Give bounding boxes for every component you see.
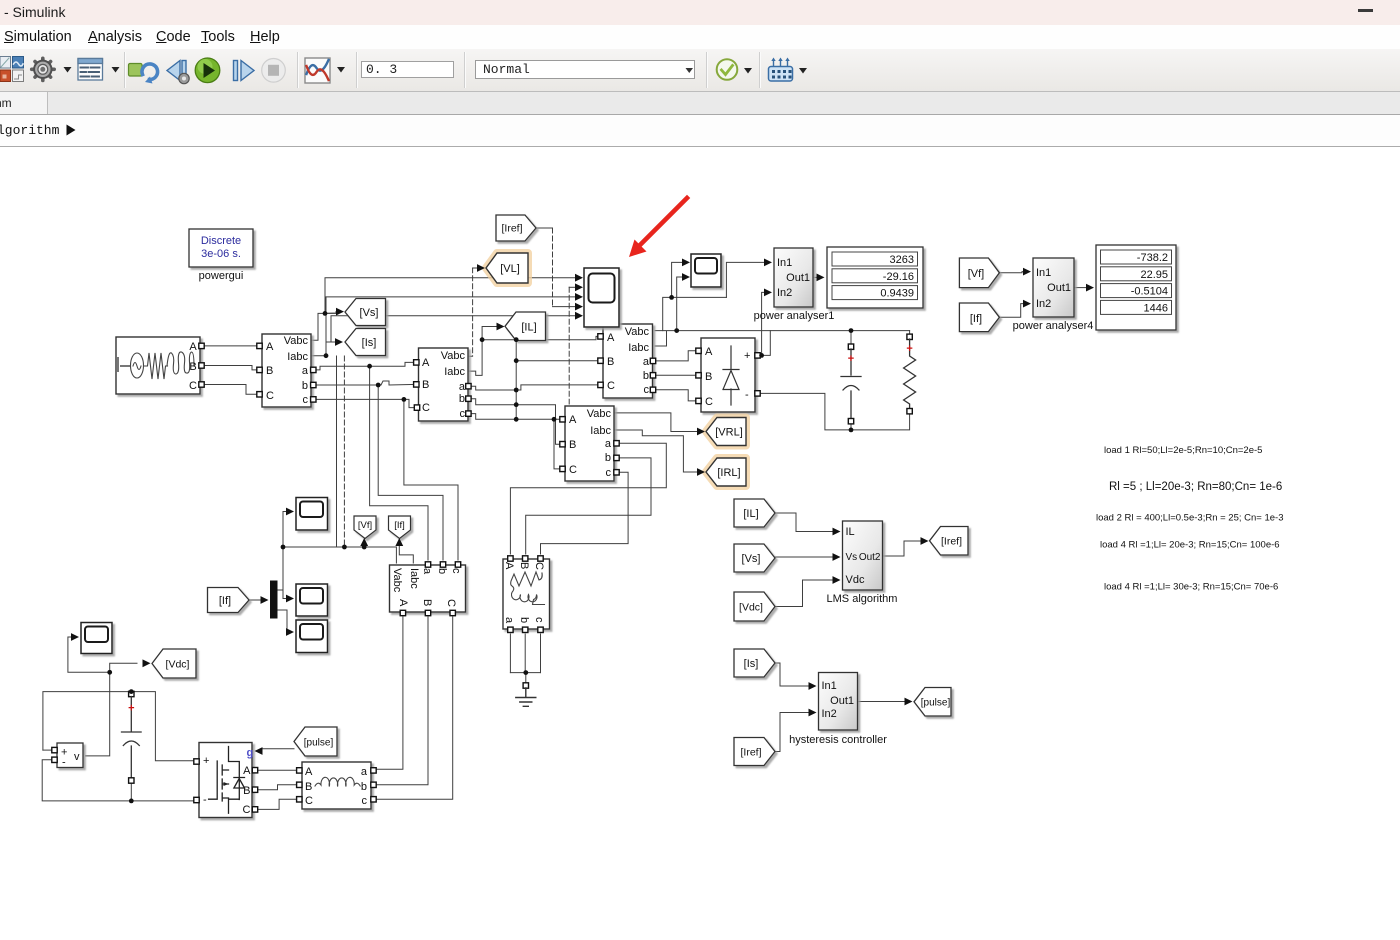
- svg-text:[VRL]: [VRL]: [715, 427, 743, 439]
- wire If feed: [399, 542, 413, 563]
- wire dashed scope in2 vertical: [568, 287, 570, 404]
- wire Vf to power analyser4 In1: [1000, 272, 1025, 273]
- wire meas1 Iabc to goto Is: [311, 342, 336, 356]
- svg-text:C: C: [705, 396, 713, 408]
- svg-text:LMS algorithm: LMS algorithm: [827, 593, 898, 605]
- three-phase V-I measurement block 2: [414, 348, 472, 421]
- wire cap bottom: [850, 424, 852, 430]
- wire branch meas4 C: [554, 419, 562, 469]
- svg-text:load 4 Rl =1;Ll= 20e-3; Rn=15;: load 4 Rl =1;Ll= 20e-3; Rn=15;Cn= 100e-6: [1100, 540, 1280, 551]
- toolbar run button: [195, 58, 220, 83]
- svg-text:[Iref]: [Iref]: [740, 747, 761, 759]
- wire cap top: [850, 331, 852, 344]
- toolbar model-settings icon: [78, 59, 120, 81]
- svg-text:load 1 Rl=50;Ll=2e-5;Rn=10;Cn=: load 1 Rl=50;Ll=2e-5;Rn=10;Cn=2e-5: [1104, 445, 1262, 456]
- svg-text:powergui: powergui: [199, 270, 244, 282]
- scope3: [296, 584, 328, 616]
- svg-text:A: A: [705, 346, 713, 358]
- goto tag [Vf] (small, point down): [354, 516, 376, 539]
- svg-text:a: a: [605, 438, 612, 450]
- svg-text:c: c: [644, 384, 650, 396]
- wire rail to power analyser1 In2: [762, 292, 765, 355]
- toolbar update-diagram icon: [129, 64, 158, 84]
- toolbar combo arrow: [686, 68, 694, 73]
- svg-text:+: +: [744, 350, 750, 362]
- svg-text:a: a: [503, 617, 515, 624]
- svg-text:[Iref]: [Iref]: [941, 536, 962, 548]
- svg-text:In1: In1: [777, 257, 792, 269]
- from tag [Iref] (top): [496, 215, 536, 241]
- svg-text:hysteresis controller: hysteresis controller: [789, 734, 887, 746]
- node junction Vs tap: [323, 311, 328, 316]
- svg-text:c: c: [533, 617, 545, 623]
- wire meas-f A down to RL3 a: [376, 617, 403, 769]
- svg-text:+: +: [906, 343, 912, 355]
- svg-text:C: C: [189, 380, 197, 392]
- capacitor branch (DC link): [841, 344, 861, 424]
- node junction ground node: [523, 670, 528, 675]
- svg-text:A: A: [503, 562, 515, 570]
- toolbar check icon: [717, 59, 752, 80]
- wire v plus stub: [43, 749, 52, 751]
- svg-text:-: -: [62, 757, 66, 769]
- wire scope1 in1 tap: [663, 297, 727, 330]
- node junction bus node 5: [514, 417, 519, 422]
- node junction phase-b tap: [376, 383, 381, 388]
- goto tag [Vs]: [345, 299, 386, 326]
- svg-text:c: c: [606, 467, 612, 479]
- goto tag [pulse] (bottom right): [914, 688, 951, 717]
- svg-text:[If]: [If]: [970, 313, 982, 325]
- svg-text:Iabc: Iabc: [444, 366, 465, 378]
- wire meas-f C down to RL3 c: [376, 617, 453, 799]
- goto tag [Vf] (from, right): [959, 258, 999, 288]
- svg-text:Vabc: Vabc: [284, 335, 309, 347]
- universal bridge (diode rectifier) block: [696, 338, 760, 412]
- wire IL rail to meas3 A: [482, 336, 600, 339]
- annotation load parameter texts: [1096, 445, 1284, 593]
- node junction dc cap top: [129, 689, 134, 694]
- svg-text:a: a: [361, 766, 368, 778]
- node junction Is tap: [324, 353, 329, 358]
- DC capacitor branch: [122, 691, 142, 783]
- scope1 (top, 2-input): [691, 254, 721, 287]
- svg-text:C: C: [569, 464, 577, 476]
- svg-text:a: a: [302, 365, 309, 377]
- svg-text:Iabc: Iabc: [628, 342, 649, 354]
- svg-text:[pulse]: [pulse]: [921, 698, 951, 709]
- svg-text:[Vdc]: [Vdc]: [166, 659, 190, 671]
- wire meas2 b to meas4 B: [468, 399, 562, 445]
- svg-text:3263: 3263: [890, 254, 914, 266]
- wire to scope5: [68, 637, 110, 672]
- wire ground bus: [510, 672, 540, 674]
- svg-text:Iabc: Iabc: [287, 351, 308, 363]
- wire scope in2 stub: [569, 286, 576, 288]
- breadcrumb arrow: [67, 125, 76, 136]
- wire igbt C to RL3 C: [258, 799, 298, 809]
- svg-text:IL: IL: [846, 526, 855, 538]
- from tag [pulse] (mirrored, point left): [294, 727, 337, 756]
- wire to scope1 in2: [677, 277, 684, 331]
- svg-text:Out1: Out1: [786, 272, 810, 284]
- scope5 (bottom left): [81, 623, 112, 654]
- three-phase series RL load block (rotated): [503, 556, 550, 633]
- svg-text:c: c: [460, 408, 466, 420]
- svg-text:Vabc: Vabc: [391, 568, 403, 593]
- svg-text:3e-06 s.: 3e-06 s.: [201, 248, 241, 260]
- node junction Vf arrow: [362, 545, 367, 550]
- wire into goto Vs stub: [325, 312, 338, 314]
- node junction Vf rail left: [281, 545, 286, 550]
- wire source C to meas1 C: [204, 385, 259, 395]
- svg-text:[VL]: [VL]: [500, 263, 520, 275]
- svg-text:b: b: [302, 380, 308, 392]
- svg-text:In2: In2: [822, 708, 837, 720]
- svg-text:C: C: [305, 795, 313, 807]
- node junction cap top: [849, 328, 854, 333]
- node junction phase-a tap: [367, 364, 372, 369]
- svg-text:+: +: [848, 353, 854, 365]
- wire ground stem: [525, 673, 527, 683]
- wire demux out1 to scope3: [278, 590, 290, 599]
- wire RL-load b to ground bus: [524, 634, 526, 673]
- svg-text:[If]: [If]: [394, 520, 405, 531]
- ground: [516, 683, 536, 707]
- svg-text:22.95: 22.95: [1140, 269, 1168, 281]
- svg-text:B: B: [518, 562, 530, 569]
- toolbar step-back icon: [167, 61, 189, 84]
- wire arrowheads: [71, 259, 1094, 755]
- svg-text:-: -: [745, 389, 749, 401]
- wire RL-load a to ground bus: [509, 634, 511, 673]
- three-phase V-I measurement block 3: [598, 324, 656, 398]
- svg-text:a: a: [459, 381, 466, 393]
- svg-text:[Is]: [Is]: [744, 658, 759, 670]
- svg-text:Out1: Out1: [1047, 282, 1071, 294]
- svg-text:Iabc: Iabc: [590, 425, 611, 437]
- wire meas3 c to bridge C: [655, 390, 696, 401]
- svg-text:C: C: [445, 599, 457, 607]
- goto tag [Vdc]: [152, 649, 196, 678]
- svg-text:In2: In2: [777, 287, 792, 299]
- svg-text:[Vf]: [Vf]: [968, 268, 985, 280]
- svg-text:b: b: [361, 781, 367, 793]
- svg-text:B: B: [305, 781, 312, 793]
- toolbar gear icon: [32, 58, 72, 80]
- svg-text:A: A: [422, 357, 430, 369]
- svg-text:[pulse]: [pulse]: [304, 738, 334, 749]
- wire meas3 b to bridge B: [655, 374, 696, 376]
- wire meas3 Iabc: [655, 331, 667, 346]
- wire tap b down to meas-f b: [378, 385, 443, 560]
- svg-text:-: -: [203, 794, 207, 806]
- wire to power analyser1 In1: [726, 262, 765, 297]
- goto tag [IRL] (highlighted): [706, 458, 746, 486]
- svg-text:a: a: [643, 356, 650, 368]
- goto tag [IL]: [505, 312, 546, 341]
- powergui block: [189, 229, 253, 282]
- wire dashed Iref vertical: [552, 228, 554, 307]
- wire into goto VL stub: [473, 267, 479, 269]
- wire bus x516: [515, 340, 517, 420]
- power analyser4 block: [1013, 258, 1094, 332]
- node junction bus node 4: [514, 402, 519, 407]
- svg-text:-29.16: -29.16: [883, 271, 914, 283]
- wire scope in4 stub: [553, 306, 577, 308]
- svg-text:B: B: [422, 379, 429, 391]
- svg-text:b: b: [459, 393, 465, 405]
- goto tag [If] (small, point down): [389, 516, 411, 539]
- wire meas2 c to meas4 A: [468, 414, 562, 420]
- svg-text:C: C: [266, 390, 274, 402]
- wire Iabc branch to scope in3: [326, 297, 576, 356]
- svg-text:B: B: [189, 361, 196, 373]
- wire from IL to LMS: [775, 513, 835, 532]
- svg-text:In1: In1: [822, 680, 837, 692]
- svg-text:B: B: [569, 439, 576, 451]
- svg-text:power analyser1: power analyser1: [754, 310, 835, 322]
- wire meas1 a to meas2 A: [313, 362, 416, 370]
- svg-text:A: A: [607, 332, 615, 344]
- wire Iref top to scope in4: [536, 227, 553, 229]
- power analyser1 block: [754, 248, 835, 322]
- svg-text:+: +: [203, 755, 209, 767]
- wire power analyser1 Out1 to display1: [813, 276, 818, 278]
- wire vertical to demux row: [282, 547, 284, 589]
- IGBT converter block: [194, 743, 258, 818]
- svg-text:In1: In1: [1036, 267, 1051, 279]
- from tag [Iref] (bottom right): [734, 738, 775, 766]
- demux: [271, 581, 278, 618]
- node junction cap bottom: [849, 428, 854, 433]
- node junction analyser tap: [669, 295, 674, 300]
- svg-text:C: C: [422, 402, 430, 414]
- svg-text:[Vs]: [Vs]: [742, 553, 761, 565]
- wire meas3 a to bridge A: [655, 351, 696, 361]
- wire demux out2 to scope4: [278, 610, 290, 632]
- svg-text:Iabc: Iabc: [408, 568, 420, 589]
- svg-text:power analyser4: power analyser4: [1013, 320, 1094, 332]
- svg-text:[IL]: [IL]: [521, 322, 536, 334]
- wire branch to scope in5: [331, 316, 576, 342]
- svg-text:C: C: [607, 380, 615, 392]
- svg-text:Vabc: Vabc: [441, 350, 466, 362]
- from tag [IL] (right column): [734, 499, 775, 527]
- wire from tag If to demux: [249, 599, 263, 601]
- three-phase V-I measurement block 4: [560, 406, 619, 481]
- svg-text:Discrete: Discrete: [201, 235, 241, 247]
- svg-text:g: g: [247, 747, 254, 759]
- svg-text:c: c: [362, 795, 368, 807]
- wire Vf tag arrow stem: [363, 542, 365, 547]
- wire meas3 Vabc rail to RC loads: [655, 330, 910, 332]
- wire meas2 Vabc up to goto VL (dashed): [468, 385, 600, 390]
- wire meas2 Iabc to goto IL: [468, 327, 498, 376]
- svg-text:b: b: [605, 452, 611, 464]
- hysteresis controller block: [789, 673, 887, 747]
- goto tag [Is]: [345, 329, 386, 356]
- svg-text:A: A: [305, 766, 313, 778]
- wire long vertical x336: [336, 356, 338, 547]
- wire meas4 Iabc out to IRL: [614, 430, 699, 472]
- wire source A to meas1 A: [204, 345, 259, 347]
- svg-text:B: B: [421, 599, 433, 606]
- svg-text:B: B: [266, 365, 273, 377]
- svg-text:B: B: [607, 356, 614, 368]
- wire v output up: [86, 663, 138, 756]
- three-phase V-I measurement block 1: [257, 334, 316, 407]
- svg-text:Rl =5 ; Ll=20e-3; Rn=80;Cn= 1e: Rl =5 ; Ll=20e-3; Rn=80;Cn= 1e-6: [1109, 481, 1282, 493]
- svg-text:[If]: [If]: [219, 595, 231, 607]
- node junction bus node 2: [514, 358, 519, 363]
- svg-text:[Vs]: [Vs]: [360, 307, 379, 319]
- three-phase source block: [116, 337, 204, 394]
- svg-text:Vs: Vs: [846, 552, 858, 563]
- wire LMS Out2 to Iref goto: [883, 541, 923, 556]
- svg-text:load 2 Rl = 400;Ll=0.5e-3;Rn =: load 2 Rl = 400;Ll=0.5e-3;Rn = 25; Cn= 1…: [1096, 513, 1284, 524]
- node junction Vf rail mid: [342, 545, 347, 550]
- wire tap a down to meas-f a: [370, 366, 428, 560]
- wire resistor top: [909, 331, 911, 335]
- wire Vf feed rail: [283, 547, 396, 563]
- wire meas1 c to meas2 C: [313, 399, 416, 407]
- wire scope2 feed: [283, 512, 289, 548]
- wire bridge plus to DC rail: [760, 331, 770, 356]
- node junction bus node 1: [514, 337, 519, 342]
- wire bus to meas3 B: [516, 360, 600, 362]
- svg-text:0.9439: 0.9439: [880, 288, 914, 300]
- node junction In2 tap: [759, 353, 764, 358]
- display4 block: [1096, 245, 1176, 330]
- toolbar simulation-data icon: [305, 58, 345, 83]
- from tag [If] (left mid): [208, 588, 250, 613]
- wire bridge minus to bottom rail: [760, 393, 910, 430]
- svg-text:Vdc: Vdc: [846, 574, 865, 586]
- svg-text:B: B: [705, 371, 712, 383]
- svg-text:A: A: [397, 599, 409, 607]
- svg-text:[Is]: [Is]: [362, 337, 377, 349]
- wire pulse tag to g input: [260, 749, 294, 751]
- svg-text:Vabc: Vabc: [625, 326, 650, 338]
- svg-text:[Vf]: [Vf]: [358, 520, 372, 531]
- display1 block: [827, 247, 923, 308]
- wire meas-f B down to RL3 b: [376, 617, 429, 785]
- wire igbt A to RL3 A: [258, 769, 298, 771]
- toolbar new-model icon cluster: [0, 57, 24, 82]
- wire cap2 top stub: [130, 691, 132, 693]
- wire from Vdc to LMS: [775, 580, 835, 607]
- svg-text:v: v: [74, 751, 80, 763]
- svg-text:1446: 1446: [1144, 302, 1168, 314]
- wire dashed vertical x344: [343, 356, 345, 547]
- wire DC plus bus: [43, 692, 194, 761]
- svg-text:b: b: [643, 370, 649, 382]
- svg-text:[Vdc]: [Vdc]: [739, 602, 763, 614]
- svg-text:a: a: [421, 568, 433, 575]
- svg-text:load 4 Rl =1;Ll= 30e-3; Rn=15;: load 4 Rl =1;Ll= 30e-3; Rn=15;Cn= 70e-6: [1104, 582, 1278, 593]
- scope (6-input, pointed by annotation): [584, 268, 619, 327]
- svg-text:+: +: [128, 703, 134, 715]
- wire source B to meas1 B: [204, 366, 259, 370]
- svg-text:[IL]: [IL]: [743, 508, 758, 520]
- wire igbt B to RL3 B: [258, 785, 298, 790]
- from tag [Vs] (right column): [734, 544, 775, 572]
- svg-text:b: b: [436, 568, 448, 574]
- scope2: [296, 498, 328, 531]
- node junction IL tap: [480, 337, 485, 342]
- three-phase series RL branch block: [297, 762, 377, 809]
- goto tag [VL] (highlighted): [486, 253, 528, 283]
- svg-text:A: A: [243, 765, 251, 777]
- node junction scope tap: [674, 328, 679, 333]
- wire meas1 Vabc to goto Vs: [311, 312, 337, 341]
- from tag [If] (right): [959, 303, 999, 332]
- node junction phase-c tap: [402, 397, 407, 402]
- from tag [Vdc] (right column): [734, 592, 775, 621]
- node junction Vdc tap: [107, 670, 112, 675]
- svg-text:c: c: [450, 568, 462, 574]
- wire meas4 Vabc to goto VRL: [510, 443, 666, 554]
- svg-text:C: C: [243, 804, 251, 816]
- svg-text:[IRL]: [IRL]: [717, 467, 740, 479]
- svg-text:Vabc: Vabc: [587, 408, 612, 420]
- svg-text:Out1: Out1: [830, 695, 854, 707]
- wire from Iref to hysteresis In2: [775, 713, 810, 752]
- svg-text:A: A: [569, 414, 577, 426]
- wire meas4 Vabc out to VRL: [614, 413, 699, 432]
- wire power analyser4 Out1 to display4: [1074, 287, 1086, 289]
- goto tag [VRL] (highlighted): [706, 418, 746, 446]
- LMS algorithm block: [827, 521, 898, 605]
- voltage measurement v: [52, 743, 83, 769]
- three-phase V-I measurement block f (rotated): [390, 562, 466, 616]
- svg-text:Out2: Out2: [859, 552, 881, 563]
- wire cap2 bottom: [130, 783, 132, 801]
- resistor branch (load R): [904, 334, 916, 414]
- svg-text:b: b: [518, 617, 530, 623]
- toolbar build icon: [769, 58, 808, 82]
- wire dashed meas2 Vabc up to VL: [468, 268, 473, 356]
- node junction dc cap bottom: [129, 799, 134, 804]
- svg-text:-0.5104: -0.5104: [1131, 286, 1168, 298]
- toolbar step-forward icon: [234, 61, 255, 81]
- wire meas4 b down: [526, 458, 651, 554]
- goto tag [Iref] (right column): [930, 527, 969, 556]
- svg-text:c: c: [303, 394, 309, 406]
- wire meas4 c down: [541, 472, 629, 554]
- wire DC minus bus: [42, 760, 194, 801]
- wire Vs branch to scope in1: [325, 278, 576, 314]
- wire hysteresis Out1 to pulse goto: [858, 701, 907, 703]
- wire RL-load c to ground bus: [540, 634, 542, 673]
- node junction bus node 3: [514, 388, 519, 393]
- svg-text:-738.2: -738.2: [1137, 252, 1168, 264]
- wire from Is to hysteresis In1: [775, 663, 810, 686]
- annotation red arrow: [629, 198, 687, 257]
- wire tap c down to meas-f c: [404, 399, 458, 560]
- toolbar stop button (disabled): [262, 59, 286, 83]
- svg-text:A: A: [189, 341, 197, 353]
- svg-text:[Iref]: [Iref]: [501, 223, 522, 235]
- svg-text:A: A: [266, 341, 274, 353]
- wire from Vs to LMS: [775, 556, 835, 558]
- node junction meas4 branch: [552, 417, 557, 422]
- wire meas1 b to meas2 B: [313, 381, 416, 385]
- svg-text:In2: In2: [1036, 298, 1051, 310]
- from tag [Is] (bottom right): [734, 649, 775, 677]
- scope4: [296, 620, 328, 653]
